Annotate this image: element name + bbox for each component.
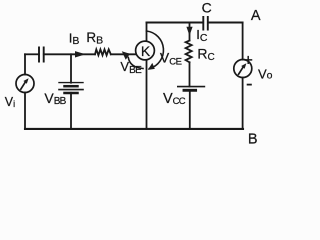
- wire top rail left segment: [147, 22, 204, 24]
- battery VBB: [59, 82, 83, 84]
- capacitor C1 (input coupling): [39, 48, 44, 62]
- svg-text:K: K: [141, 43, 151, 59]
- arrow VCE head: [148, 63, 155, 70]
- battery VCC: [178, 86, 205, 88]
- source Vi arrow shaft: [21, 82, 25, 89]
- wire bottom rail: [25, 128, 243, 130]
- wire top rail right segment: [208, 22, 243, 24]
- node junction VBB branch: [70, 54, 72, 82]
- label minus sign: [248, 84, 251, 86]
- svg-text:IB: IB: [69, 30, 80, 47]
- wire collector lead up: [146, 23, 148, 42]
- capacitor C (output coupling): [203, 17, 208, 30]
- arrow Vo head: [241, 63, 246, 69]
- arc VBE loop: [128, 57, 143, 68]
- transistor K envelope circle: [136, 41, 155, 60]
- svg-text:VCE: VCE: [160, 49, 182, 67]
- wire RC branch top: [189, 23, 191, 41]
- svg-text:Vi: Vi: [5, 95, 15, 109]
- source Vo arrow shaft: [239, 67, 243, 74]
- arrow Vi head: [23, 78, 28, 84]
- svg-text:VBE: VBE: [120, 59, 142, 76]
- wire VCC bottom lead: [189, 90, 191, 129]
- wire VBB bottom lead: [70, 93, 72, 129]
- wire right vertical (output branch): [242, 23, 244, 129]
- label plus sign: [245, 57, 252, 64]
- wire left vertical (Vi branch): [24, 54, 26, 129]
- source Vi circle: [16, 75, 34, 93]
- wire base line mid segment: [44, 53, 95, 55]
- arrow IB head: [75, 51, 86, 57]
- svg-text:Vo: Vo: [258, 66, 273, 81]
- svg-text:RC: RC: [197, 46, 214, 63]
- svg-text:C: C: [202, 0, 212, 16]
- svg-text:VCC: VCC: [163, 91, 186, 107]
- arrow VBE head: [122, 51, 130, 60]
- arrow IC head: [186, 27, 192, 36]
- source Vo circle: [234, 60, 252, 78]
- resistor RC zigzag: [186, 41, 192, 63]
- wire RC to VCC: [189, 62, 191, 86]
- wire emitter lead down: [146, 60, 148, 129]
- svg-text:B: B: [248, 131, 258, 145]
- resistor RB zigzag: [95, 49, 111, 55]
- svg-text:IC: IC: [196, 27, 208, 44]
- wire base line left segment: [25, 53, 39, 55]
- wire base line to transistor: [111, 53, 137, 55]
- svg-text:RB: RB: [86, 30, 103, 47]
- svg-text:A: A: [251, 8, 261, 24]
- arc VCE loop: [147, 31, 164, 69]
